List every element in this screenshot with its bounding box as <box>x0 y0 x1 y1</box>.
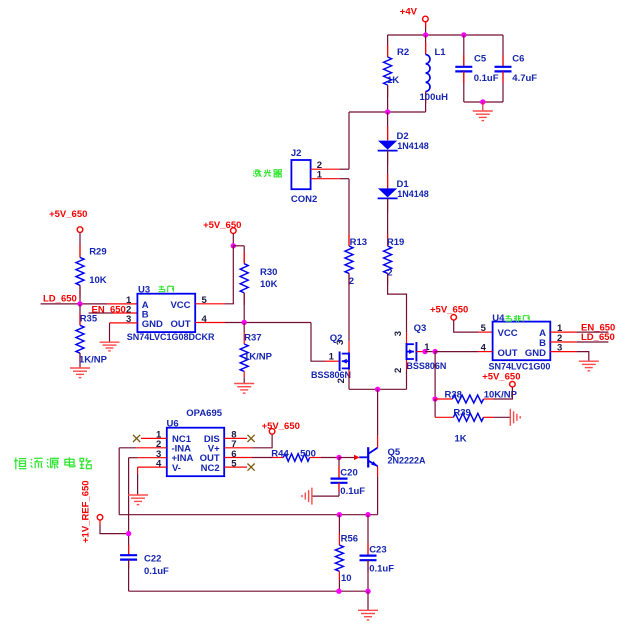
wire <box>494 387 513 399</box>
svg-text:4.7uF: 4.7uF <box>512 73 537 84</box>
wire <box>41 303 108 305</box>
ground <box>509 409 511 426</box>
wire <box>225 246 233 304</box>
wire <box>232 233 234 245</box>
svg-text:C5: C5 <box>474 54 487 65</box>
power terminal +5V_650 <box>269 429 275 435</box>
svg-text:10: 10 <box>341 573 352 584</box>
svg-text:LD_650: LD_650 <box>581 332 615 343</box>
capacitor C23 <box>367 515 369 556</box>
wire <box>388 34 503 36</box>
wire <box>348 273 350 341</box>
pin 8 no-connect <box>224 437 247 439</box>
node junction <box>337 512 342 517</box>
wire <box>311 323 325 362</box>
pin 1 <box>311 178 340 180</box>
pin 2 <box>112 312 137 314</box>
resistor R56 <box>338 515 340 533</box>
svg-text:1N4148: 1N4148 <box>397 189 429 199</box>
ground <box>128 494 148 496</box>
node junction <box>365 589 370 594</box>
svg-text:2: 2 <box>336 378 347 383</box>
pin 1 <box>416 351 425 353</box>
diode D1 <box>387 174 389 188</box>
label NAND-gate (CJK) <box>506 315 511 317</box>
connector J2 <box>291 160 310 189</box>
pin 4 <box>478 351 493 353</box>
wire <box>377 466 379 476</box>
svg-text:Q3: Q3 <box>414 323 427 334</box>
capacitor C6 <box>502 35 504 67</box>
pin 1 no-connect <box>141 437 167 439</box>
wire <box>434 399 436 417</box>
svg-text:R2: R2 <box>397 47 409 58</box>
wire <box>425 351 435 353</box>
wire <box>454 320 478 332</box>
ground <box>100 341 120 343</box>
resistor R13 <box>348 234 350 246</box>
svg-text:3: 3 <box>335 340 346 345</box>
resistor R38 <box>435 398 452 400</box>
label constant-current-source circuit (CJK) <box>15 458 17 470</box>
node junction <box>365 512 370 517</box>
wire <box>576 352 588 361</box>
signal arrow <box>354 455 360 460</box>
svg-text:V-: V- <box>172 463 181 474</box>
svg-text:C23: C23 <box>369 544 386 555</box>
power terminal +5V_650 <box>77 227 83 233</box>
node junction <box>375 387 380 392</box>
power terminal +4V <box>423 16 429 22</box>
wire <box>137 474 139 495</box>
label AND-gate (CJK) <box>159 286 164 288</box>
node junction <box>423 32 428 37</box>
svg-text:C22: C22 <box>144 554 161 565</box>
wire <box>406 360 408 370</box>
pin 1 <box>550 331 576 333</box>
svg-text:10K: 10K <box>260 279 278 290</box>
node junction <box>336 589 341 594</box>
resistor R30 <box>243 246 245 264</box>
svg-text:VCC: VCC <box>170 300 190 311</box>
power terminal +5V_650 <box>510 381 516 387</box>
wire <box>129 457 138 459</box>
resistor R39 <box>435 416 453 418</box>
wire <box>576 341 608 343</box>
node junction <box>77 301 82 306</box>
wire <box>388 273 407 332</box>
svg-text:100uH: 100uH <box>420 92 449 103</box>
transistor Q5 <box>359 456 368 458</box>
svg-text:R29: R29 <box>89 247 106 258</box>
inductor L1 <box>425 35 427 55</box>
ground <box>367 591 369 610</box>
svg-text:+5V_650: +5V_650 <box>203 220 241 231</box>
ground <box>482 102 484 111</box>
pin 5 <box>478 331 493 333</box>
svg-text:GND: GND <box>142 319 163 330</box>
ground <box>70 367 90 369</box>
wire <box>348 341 350 352</box>
pin 4 <box>195 322 225 324</box>
wire <box>233 245 244 247</box>
svg-text:R13: R13 <box>350 237 367 248</box>
svg-text:2: 2 <box>393 368 404 373</box>
svg-text:J2: J2 <box>291 148 302 159</box>
ground <box>234 383 254 385</box>
svg-text:+1V_REF_650: +1V_REF_650 <box>81 480 92 543</box>
transistor Q3 <box>415 342 417 362</box>
svg-text:R38: R38 <box>445 389 462 400</box>
svg-text:C20: C20 <box>340 467 357 478</box>
svg-text:OPA695: OPA695 <box>186 408 222 419</box>
node junction <box>385 109 390 114</box>
resistor R19 <box>387 234 389 246</box>
wire <box>349 111 426 113</box>
svg-text:0.1uF: 0.1uF <box>340 486 365 497</box>
wire <box>109 323 111 342</box>
svg-text:U4: U4 <box>492 313 505 324</box>
svg-text:1: 1 <box>317 170 323 181</box>
wire <box>576 331 608 333</box>
resistor R35 <box>79 304 81 325</box>
node junction <box>432 396 437 401</box>
svg-text:+4V: +4V <box>400 7 418 18</box>
power terminal +1V_REF_650 <box>97 515 103 521</box>
wire <box>377 389 379 435</box>
op-amp U3 (AND gate) <box>137 294 195 332</box>
op-amp U4 (NAND gate) <box>493 322 551 361</box>
pin 2 <box>136 447 167 449</box>
svg-text:OUT: OUT <box>170 319 190 330</box>
svg-text:C6: C6 <box>512 54 524 65</box>
svg-text:SN74LVC1G00: SN74LVC1G00 <box>489 362 551 372</box>
wire <box>494 416 511 418</box>
wire <box>348 179 350 246</box>
wire <box>225 322 311 324</box>
svg-text:1K/NP: 1K/NP <box>244 352 273 363</box>
svg-text:L1: L1 <box>435 47 447 58</box>
wire <box>425 22 427 35</box>
svg-text:5: 5 <box>481 323 487 334</box>
wire <box>252 434 272 448</box>
svg-text:GND: GND <box>525 348 546 359</box>
svg-text:0.1uF: 0.1uF <box>474 73 499 84</box>
svg-text:OUT: OUT <box>498 348 518 359</box>
wire <box>119 447 136 449</box>
pin 2 <box>311 168 340 170</box>
wire <box>119 514 377 516</box>
capacitor C22 <box>128 545 130 555</box>
resistor R29 <box>79 232 81 257</box>
svg-text:R44: R44 <box>271 449 289 460</box>
svg-text:500: 500 <box>300 449 316 460</box>
node junction <box>461 32 466 37</box>
op-amp U6 <box>167 428 224 477</box>
label laser (CJK) <box>252 170 255 173</box>
svg-text:EN_650: EN_650 <box>92 304 126 315</box>
node junction <box>231 243 236 248</box>
svg-text:SN74LVC1G08DCKR: SN74LVC1G08DCKR <box>127 332 215 342</box>
ground <box>579 360 599 362</box>
wire <box>339 178 349 180</box>
node junction <box>242 320 247 325</box>
power terminal +5V_650 <box>231 228 237 234</box>
pin 2 <box>550 341 576 343</box>
wire <box>406 332 408 344</box>
pin 5 no-connect <box>224 466 247 468</box>
svg-text:VCC: VCC <box>498 328 518 339</box>
wire <box>435 351 478 353</box>
wire <box>348 112 350 169</box>
svg-text:U3: U3 <box>138 285 150 296</box>
svg-text:BSS806N: BSS806N <box>406 361 446 371</box>
svg-text:+5V_650: +5V_650 <box>482 371 520 382</box>
node junction <box>336 455 341 460</box>
node junction <box>480 99 485 104</box>
svg-text:CON2: CON2 <box>291 194 317 205</box>
svg-text:1K: 1K <box>455 434 467 445</box>
pin 5 <box>195 303 225 305</box>
svg-text:R56: R56 <box>341 534 358 545</box>
resistor R2 <box>387 35 389 57</box>
wire <box>118 448 120 515</box>
pin 3 <box>138 457 167 459</box>
svg-text:R39: R39 <box>453 408 470 419</box>
svg-text:1K: 1K <box>387 75 399 86</box>
svg-text:4: 4 <box>202 314 208 325</box>
svg-text:+5V_650: +5V_650 <box>49 209 87 220</box>
svg-text:+5V_650: +5V_650 <box>430 304 468 315</box>
resistor R44 <box>252 457 272 459</box>
wire <box>464 101 503 103</box>
wire <box>339 457 354 459</box>
wire <box>89 312 112 314</box>
pin 1 <box>107 303 137 305</box>
svg-text:2N2222A: 2N2222A <box>388 456 427 466</box>
wire <box>349 388 407 390</box>
resistor R37 <box>243 322 245 332</box>
svg-text:3: 3 <box>393 331 404 336</box>
svg-text:+5V_650: +5V_650 <box>262 421 300 432</box>
pin 4 <box>138 466 167 468</box>
svg-text:0.1uF: 0.1uF <box>369 564 394 575</box>
capacitor C5 <box>463 35 465 67</box>
wire <box>434 352 436 399</box>
wire <box>128 458 130 555</box>
svg-text:0.1uF: 0.1uF <box>144 566 169 577</box>
pin 7 <box>224 447 252 449</box>
svg-text:1: 1 <box>329 352 335 363</box>
diode D2 <box>387 112 389 140</box>
wire <box>99 520 101 524</box>
svg-text:1K/NP: 1K/NP <box>79 355 108 366</box>
svg-text:10K: 10K <box>89 275 107 286</box>
svg-text:LD_650: LD_650 <box>43 294 77 305</box>
node junction <box>432 349 437 354</box>
svg-text:R30: R30 <box>260 267 277 278</box>
svg-text:U6: U6 <box>167 418 179 429</box>
svg-text:1N4148: 1N4148 <box>397 141 429 151</box>
pin 3 <box>550 351 576 353</box>
wire <box>129 590 368 592</box>
wire <box>312 495 339 497</box>
pin 6 <box>224 457 252 459</box>
svg-text:NC2: NC2 <box>201 463 220 474</box>
power terminal +5V_650 <box>451 315 457 321</box>
transistor Q2 <box>325 360 340 362</box>
capacitor C20 <box>338 458 340 479</box>
svg-text:R37: R37 <box>244 333 261 344</box>
pin 3 <box>110 322 138 324</box>
svg-text:R19: R19 <box>387 237 404 248</box>
ground <box>311 488 313 505</box>
node junction <box>126 531 131 536</box>
node junction <box>422 349 427 354</box>
wire <box>339 168 349 170</box>
wire <box>321 457 339 459</box>
wire <box>348 370 350 378</box>
